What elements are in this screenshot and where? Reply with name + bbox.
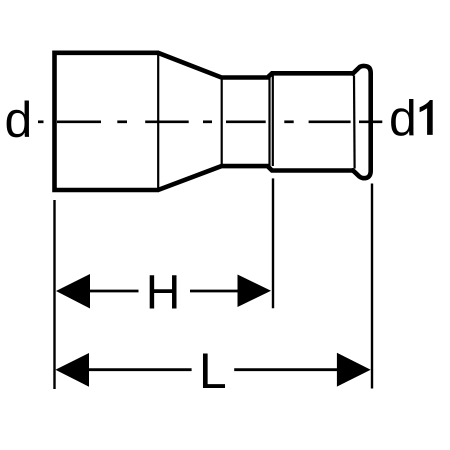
svg-text:H: H (146, 266, 181, 319)
arrowhead L left (55, 353, 89, 387)
dimension line L (87, 368, 338, 371)
transition edge cone/small pipe (221, 79, 223, 166)
label d1 (digit 1, drawn Helvetica-style without foot serif) (420, 100, 433, 135)
arrowhead H right (238, 275, 272, 308)
bead inner edge (353, 76, 356, 169)
extension line middle (H) (272, 178, 274, 308)
svg-text:d: d (389, 91, 417, 147)
svg-text:L: L (199, 343, 227, 399)
svg-text:d: d (5, 92, 33, 148)
extension line left (L/H datum) (53, 200, 55, 389)
fitting body outline (large end, cone, small pipe, press socket) (55, 53, 353, 190)
socket pressing indicator line (272, 75, 274, 167)
arrowhead H left (56, 274, 90, 309)
transition edge cylinder/cone (157, 54, 159, 189)
socket step edge (268, 75, 270, 170)
extension line right (L) (371, 184, 373, 389)
arrowhead L right (337, 353, 371, 387)
centerline (dash-dot axis) (38, 120, 382, 123)
press bead outline at socket mouth (353, 66, 371, 178)
dimension line H (88, 290, 239, 293)
